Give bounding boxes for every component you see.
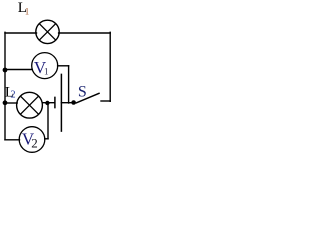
wire right rail [109, 32, 111, 101]
label V2 [22, 129, 38, 150]
svg-text:S: S [78, 83, 87, 100]
wire V1 drop to switch node [68, 66, 70, 103]
svg-text:2: 2 [31, 135, 38, 150]
wire row3 left (node B to L2) [5, 102, 17, 104]
wire V1 left lead [5, 69, 32, 71]
lamp L1 cross [39, 24, 56, 41]
label V1 [34, 58, 49, 77]
junction dot switch pivot [71, 100, 76, 105]
junction dot left rail / V1 [3, 68, 8, 73]
svg-text:1: 1 [25, 6, 30, 16]
svg-text:1: 1 [44, 66, 49, 76]
svg-text:2: 2 [10, 89, 15, 100]
lamp L1 circle [36, 20, 59, 43]
battery long plate [60, 74, 62, 131]
lamp L2 circle [17, 92, 43, 118]
label L2 [5, 84, 16, 100]
battery short plate [54, 97, 56, 107]
lamp L2 cross [20, 96, 38, 114]
wire L2 to battery [42, 102, 54, 104]
junction dot V2 riser / battery row [45, 101, 49, 105]
wire battery to switch pivot [61, 102, 74, 104]
wire left rail [4, 32, 6, 140]
switch S blade [76, 93, 99, 103]
voltmeter V1 circle [32, 53, 58, 79]
wire top-left (node A to L1) [5, 32, 37, 34]
voltmeter V2 circle [19, 127, 45, 153]
wire V1 right lead [58, 65, 69, 67]
wire top-right (L1 to right rail) [59, 32, 111, 34]
label L1 [18, 0, 30, 16]
junction dot left rail / L2 row [3, 100, 8, 105]
wire V2 right lead [45, 138, 48, 140]
wire bottom (left rail to V2) [5, 139, 20, 141]
wire switch right terminal [101, 100, 110, 102]
wire V2 riser [47, 103, 49, 139]
